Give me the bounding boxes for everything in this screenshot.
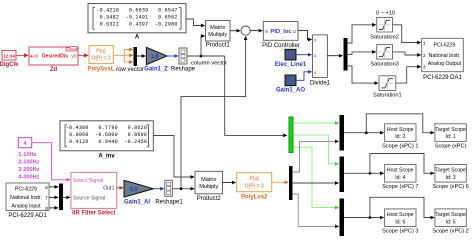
junction row1	[365, 131, 368, 134]
svg-text:2: 2	[423, 53, 426, 58]
svg-text:1-10Hz: 1-10Hz	[18, 152, 36, 158]
svg-text:Scope (xPC) 1: Scope (xPC) 1	[382, 143, 418, 149]
label filter frequencies	[18, 152, 39, 181]
block PID Controller (PID_Inc)	[263, 22, 298, 41]
wire Saturation2 to DA1 pin 1	[393, 25, 421, 43]
svg-text:1.0: 1.0	[130, 187, 138, 193]
svg-text:PID Controller: PID Controller	[262, 43, 300, 49]
svg-text:1.8: 1.8	[151, 54, 159, 60]
svg-text:Reshape: Reshape	[171, 66, 196, 72]
block DigClk (digital clock 12:34)	[2, 51, 16, 61]
wire Reshape to column vector run	[187, 55, 225, 57]
svg-text:Multiply: Multiply	[199, 184, 218, 190]
mux row vector (black bar)	[133, 47, 137, 66]
svg-text:Elec_Line1: Elec_Line1	[275, 62, 307, 68]
wire demux to Saturation1	[347, 66, 378, 83]
svg-text:Scope (xPC): Scope (xPC)	[435, 143, 467, 149]
wire row vector to Gain1_Z	[137, 55, 146, 57]
wire mux2 to Host Scope 4	[344, 172, 384, 174]
svg-text:2-100Hz: 2-100Hz	[18, 160, 39, 166]
wire Saturation3 to DA1 pin 2	[393, 52, 421, 55]
wire AD1 pin 6 to mux	[49, 186, 58, 188]
svg-text:y0: y0	[71, 54, 76, 60]
wire constant 4 to IIR Filter Select	[32, 143, 70, 180]
svg-text:DigClk: DigClk	[0, 62, 19, 68]
wire Gain1_AI to Reshape1	[154, 188, 164, 190]
wire mux1 to Host Scope 2	[344, 132, 384, 134]
wire row1 loop to Target Scope 1	[366, 114, 434, 133]
demux measured (black bar)	[289, 166, 293, 200]
svg-text:4-300Hz: 4-300Hz	[18, 175, 39, 181]
wire mux to IIR Source Signal	[63, 196, 70, 198]
block Reshape1	[165, 180, 173, 196]
svg-text:0.4120 0.9440 -0.2450: 0.4120 0.9440 -0.2450	[66, 139, 147, 145]
constant matrix A	[88, 4, 186, 33]
svg-text:0.6321 0.4397 -0.2980: 0.6321 0.4397 -0.2980	[96, 21, 177, 27]
svg-text:12:34: 12:34	[3, 53, 15, 58]
wire row3 loop to Target Scope 5	[370, 197, 434, 217]
svg-text:Id: 3: Id: 3	[446, 175, 456, 181]
svg-text:National Instr.: National Instr.	[429, 53, 461, 59]
wire PID to Divide1 input 1	[298, 31, 312, 40]
svg-text:e: e	[265, 29, 268, 35]
svg-text:Source Signal: Source Signal	[73, 195, 105, 201]
gain Gain1_AO (value 1.0)	[285, 75, 296, 86]
svg-text:Product1: Product1	[206, 43, 231, 49]
wire Saturation1 to DA1 pin 3	[396, 67, 421, 83]
svg-text:PCI-6229: PCI-6229	[15, 187, 37, 193]
svg-text:6: 6	[45, 185, 48, 190]
wire measured out 3 to scope mux 3	[293, 194, 339, 226]
svg-text:P(u): P(u)	[96, 49, 106, 55]
svg-text:Select Signal: Select Signal	[73, 178, 103, 184]
svg-text:O(P) = 3: O(P) = 3	[91, 55, 110, 61]
block PCI-6229 AD1 (analog input)	[6, 183, 49, 211]
svg-text:Id: 2: Id: 2	[395, 134, 405, 140]
wire PolyLvs2 to measured demux	[272, 181, 288, 183]
wire mux3 to Host Scope 6	[344, 217, 384, 219]
svg-text:Target Scope: Target Scope	[435, 168, 466, 174]
block Product1 (Matrix Multiply)	[206, 21, 231, 42]
svg-text:Id: 6: Id: 6	[395, 219, 405, 225]
wire DigClk to Zd	[16, 54, 28, 56]
block Divide1	[313, 35, 328, 78]
svg-text:Gain1_AO: Gain1_AO	[276, 88, 305, 94]
block PolyLvs2 (polynomial)	[237, 173, 272, 192]
svg-text:PID_Inc: PID_Inc	[270, 29, 292, 35]
wire green out 1 to scope mux 1	[293, 122, 339, 124]
wire feedback up to sum	[181, 36, 246, 188]
wire green out 2 to scope mux 2	[293, 135, 339, 164]
wire IIR Out1 to Gain1_AI	[117, 187, 123, 189]
svg-text:-0.4300 0.7790 0.8620: -0.4300 0.7790 0.8620	[66, 125, 147, 131]
svg-text:u: u	[293, 29, 296, 35]
block Target Scope Id 3	[435, 165, 466, 183]
wire Elec_Line1 to Divide1 input 2	[296, 54, 312, 56]
svg-text:PCI-6229 DA1: PCI-6229 DA1	[423, 75, 462, 81]
svg-text:0.9060 -0.6800 0.8690: 0.9060 -0.6800 0.8690	[66, 132, 147, 138]
svg-text:Scope (xPC) 2: Scope (xPC) 2	[432, 228, 468, 234]
svg-text:PolySvsL: PolySvsL	[87, 67, 114, 73]
svg-text:-0.4218 0.6039 0.6547: -0.4218 0.6039 0.6547	[96, 7, 177, 13]
svg-text:▸u0: ▸u0	[31, 54, 39, 60]
constant matrix A_inv	[60, 121, 153, 151]
svg-text:DesiredDis: DesiredDis	[42, 54, 68, 60]
wire Gain1_Z to Reshape	[167, 55, 178, 57]
wire demux to Saturation3	[347, 52, 376, 55]
svg-text:A: A	[135, 35, 140, 41]
svg-text:Host Scope: Host Scope	[387, 127, 414, 133]
svg-text:Matrix: Matrix	[201, 177, 216, 183]
wire Divide1 to demux	[327, 55, 342, 57]
svg-text:Matrix: Matrix	[210, 25, 225, 31]
svg-text:Host Scope: Host Scope	[387, 212, 414, 218]
svg-text:National Instr.: National Instr.	[10, 195, 42, 201]
svg-text:3: 3	[423, 65, 426, 70]
svg-text:Id: 4: Id: 4	[395, 175, 405, 181]
svg-text:1: 1	[423, 41, 426, 46]
svg-text:Target Scope: Target Scope	[435, 212, 466, 218]
svg-text:Divide1: Divide1	[310, 80, 331, 86]
svg-text:8: 8	[45, 206, 48, 211]
svg-text:column vector: column vector	[191, 60, 227, 66]
svg-text:Id: 1: Id: 1	[446, 134, 456, 140]
svg-text:Saturation3: Saturation3	[370, 61, 399, 67]
svg-text:Scope (xPC) 7: Scope (xPC) 7	[382, 184, 418, 190]
svg-text:row vector: row vector	[116, 67, 144, 73]
svg-text:Zd: Zd	[50, 67, 58, 73]
wire Reshape1 to Product2 input 2	[172, 188, 194, 190]
svg-text:Saturation1: Saturation1	[373, 93, 402, 99]
wire column vector up to Product1 input 2	[201, 36, 205, 56]
svg-text:1.0: 1.0	[287, 79, 294, 85]
block Zd (DesiredDis subsystem)	[29, 47, 78, 66]
svg-text:Analog Output: Analog Output	[428, 61, 462, 67]
svg-text:Out1: Out1	[103, 186, 114, 192]
wire AD1 pin 7 to mux	[49, 196, 58, 198]
scope mux 2	[340, 157, 344, 193]
demux bar for DA channels	[344, 38, 348, 71]
wire measured out 1 to scope mux 1	[293, 141, 339, 172]
wire green out 3 to scope mux 3	[293, 147, 339, 207]
block Host Scope Id 2	[385, 124, 416, 142]
block Saturation2	[377, 18, 393, 33]
wire Zd to PolySvsL	[78, 54, 88, 56]
svg-text:Saturation2: Saturation2	[370, 34, 399, 40]
svg-text:P(u): P(u)	[249, 176, 259, 182]
mux bar AD channels	[59, 183, 63, 210]
gain Gain1_AI (triangle, value 1.0)	[124, 180, 154, 197]
block Product2 (Matrix Multiply)	[195, 171, 223, 194]
svg-text:4: 4	[24, 141, 27, 147]
svg-text:Reshape1: Reshape1	[155, 199, 183, 205]
svg-text:A_inv: A_inv	[98, 154, 115, 160]
svg-text:3-200Hz: 3-200Hz	[18, 167, 39, 173]
block Target Scope Id 1	[435, 124, 466, 142]
svg-text:Gain1_AI: Gain1_AI	[124, 199, 150, 205]
svg-text:IIR Filter Select: IIR Filter Select	[72, 211, 115, 217]
junction row3	[369, 216, 372, 219]
junction at column vector branch to Product1	[200, 55, 203, 58]
block Host Scope Id 4	[385, 165, 416, 183]
svg-text:0 ~ +10: 0 ~ +10	[376, 10, 395, 16]
svg-text:Multiply: Multiply	[208, 32, 227, 38]
svg-text:Analog Input: Analog Input	[11, 203, 41, 209]
wire Product1 to sum	[230, 30, 240, 32]
wire AD1 pin 8 to mux	[49, 207, 58, 209]
wire A_inv to Product2 input 1	[153, 136, 194, 178]
block PolySvsL (polynomial)	[89, 46, 113, 64]
wire row2 loop to Target Scope 3	[370, 154, 434, 174]
svg-text:Scope (xPC) 6: Scope (xPC) 6	[432, 184, 468, 190]
svg-text:Scope (xPC) 3: Scope (xPC) 3	[382, 228, 418, 234]
svg-text:O(P) = 3: O(P) = 3	[245, 183, 264, 189]
wire demux to Saturation2	[347, 25, 376, 43]
wire Gain1_AO to Divide1 input 3	[296, 72, 312, 81]
wire desired branch down to green demux	[225, 56, 287, 135]
svg-text:Id: 5: Id: 5	[446, 219, 456, 225]
scope mux 1	[340, 115, 344, 151]
svg-text:0.3482 -0.1491 0.6562: 0.3482 -0.1491 0.6562	[96, 14, 177, 20]
svg-text:7: 7	[45, 196, 48, 201]
block IIR Filter Select	[71, 172, 117, 208]
block Target Scope Id 5	[435, 209, 466, 227]
gain Elec_Line1 (value 1.0)	[285, 49, 296, 60]
block Saturation3	[377, 45, 393, 60]
svg-text:1.0: 1.0	[287, 53, 294, 59]
gain Gain1_Z (triangle, value 1.8)	[146, 47, 167, 64]
block Reshape	[179, 48, 187, 64]
wire sum to PID controller	[250, 30, 262, 32]
constant block 4 (filter select)	[18, 138, 31, 148]
wire PolySvsL fanout to row vector mux	[113, 50, 133, 63]
junction feedback takeoff	[180, 187, 183, 190]
svg-text:Product2: Product2	[197, 196, 222, 202]
svg-text:PolyLvs2: PolyLvs2	[241, 195, 268, 201]
block PCI-6229 DA1 (analog output)	[422, 38, 464, 71]
junction row2	[369, 172, 372, 175]
wire Product2 to PolyLvs2	[223, 182, 236, 184]
svg-text:PCI-6229 AD1: PCI-6229 AD1	[8, 213, 47, 219]
block Host Scope Id 6	[385, 209, 416, 227]
svg-text:Host Scope: Host Scope	[387, 168, 414, 174]
svg-text:PCI-6229: PCI-6229	[434, 43, 456, 49]
wire measured out 2 to scope mux 2	[293, 182, 339, 184]
wire A to Product1 input 1	[186, 19, 205, 26]
svg-text:Gain1_Z: Gain1_Z	[144, 66, 168, 72]
scope mux 3	[340, 199, 344, 237]
demux desired (green bar)	[289, 117, 293, 153]
block Saturation1	[379, 76, 396, 91]
sum junction circle	[241, 26, 250, 35]
svg-text:Target Scope: Target Scope	[435, 127, 466, 133]
